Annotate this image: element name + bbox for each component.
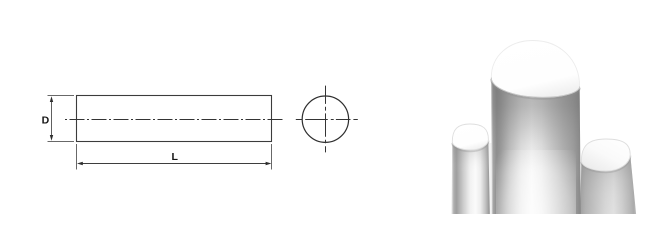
dimension L arrow right [266,162,272,165]
horizontal centerline through side view [65,119,283,121]
big bar lip shadow [491,79,579,99]
big bar body [491,78,581,216]
dimension L line [79,163,270,165]
left bar lip shadow [452,141,488,152]
dimension L arrow left [77,162,83,165]
contact shadow between left bar and large bar [489,143,492,215]
end-view circle [302,96,348,142]
dimension L extension line left [76,144,78,170]
svg-text:D: D [42,114,50,126]
dimension D extension line top [48,95,75,97]
right bar body [580,154,636,215]
big bar top face [491,41,579,98]
end-view horizontal centerline [296,119,358,121]
right bar lip shadow [581,156,630,173]
right bar body top shading [580,154,636,215]
dimension D arrow up [50,96,53,102]
dimension D extension line bottom [48,141,75,143]
dimension L extension line right [271,144,273,170]
left bar body [451,140,489,216]
right bar top face [581,139,630,171]
dimension D arrow down [50,135,53,141]
end-view vertical centerline [325,86,327,153]
svg-text:L: L [171,151,178,163]
big bar body top shading [491,78,581,216]
left bar top face [452,124,488,150]
big bar bottom sheen [496,150,576,215]
bar side-view rectangle [77,96,272,142]
big bar rim line [491,78,579,98]
left bar body top shading [451,140,489,216]
dimension D line [51,98,53,139]
